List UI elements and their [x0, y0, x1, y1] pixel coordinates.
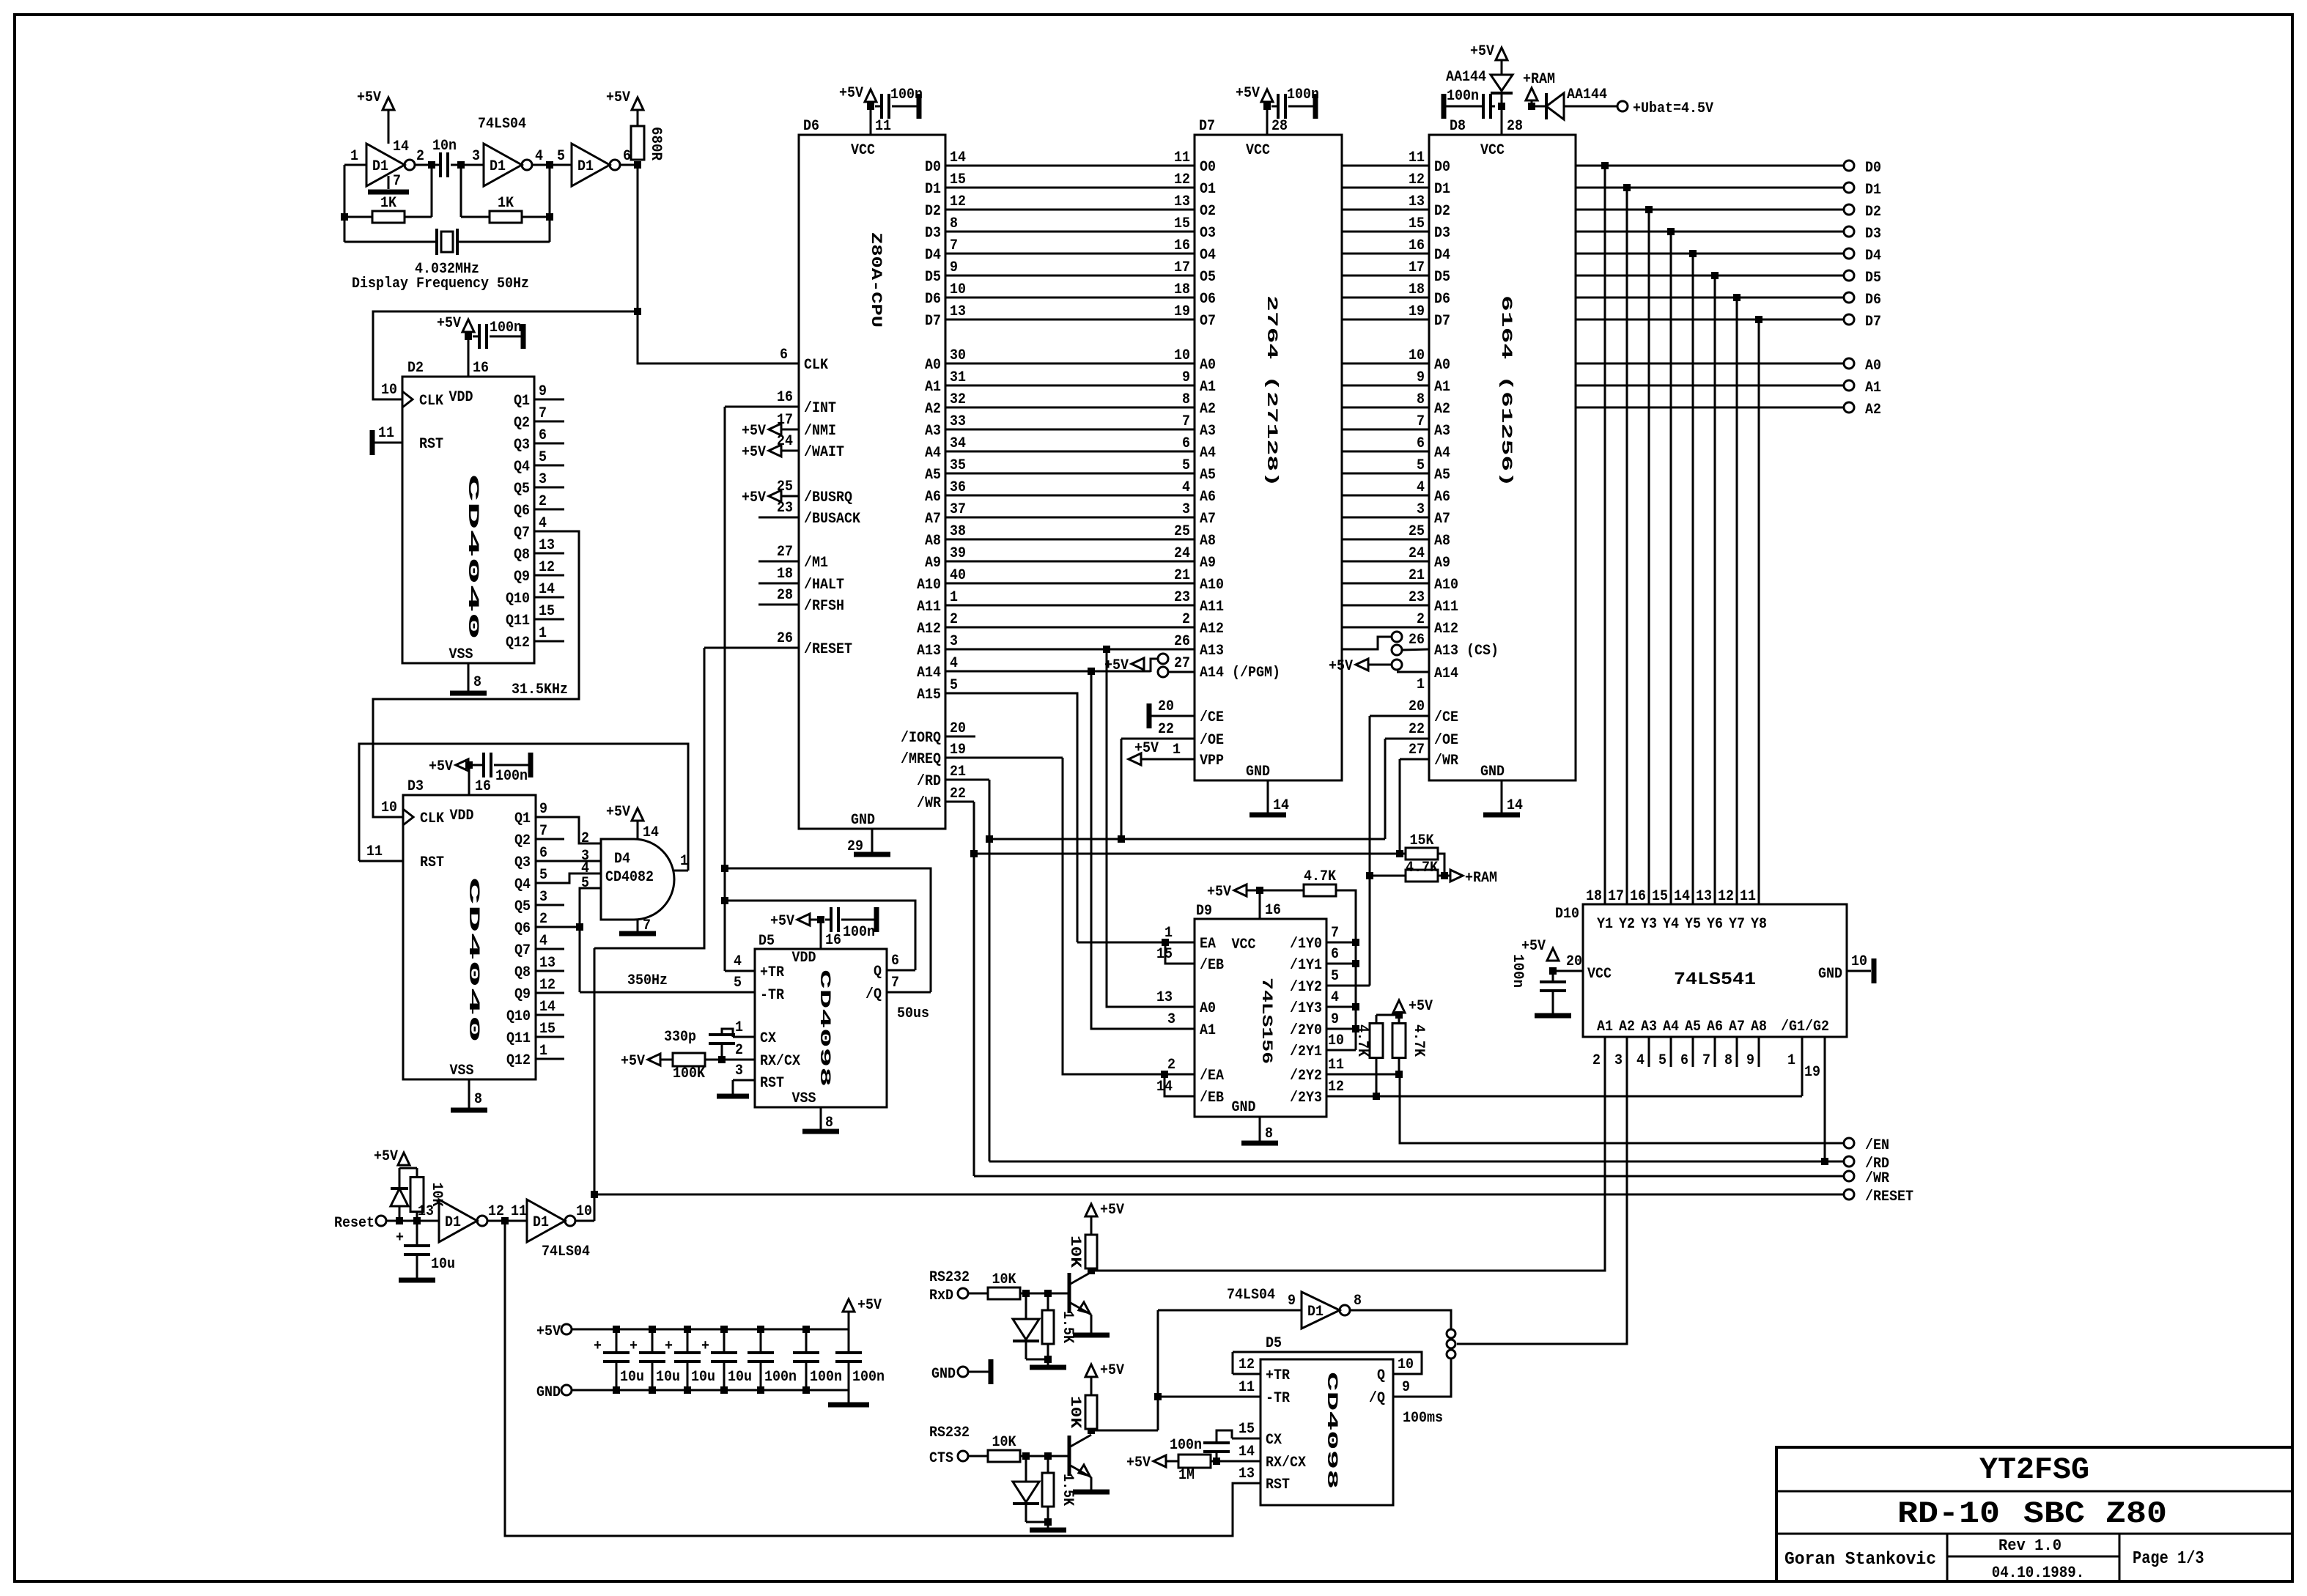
svg-text:/EA: /EA [1200, 1068, 1224, 1085]
IC D3 CD4040 counter box [403, 795, 536, 1079]
pin VPP of 2764 with +5V [1140, 758, 1195, 761]
svg-text:3: 3 [950, 633, 958, 650]
svg-text:D3: D3 [925, 225, 941, 242]
resistor 680R [631, 126, 644, 160]
svg-text:A1: A1 [1200, 1022, 1216, 1039]
svg-text:A11: A11 [1434, 599, 1458, 616]
svg-text:RST: RST [420, 854, 444, 871]
svg-text:D0: D0 [1865, 160, 1881, 177]
svg-text:8: 8 [950, 215, 958, 232]
svg-text:A9: A9 [925, 555, 941, 572]
cap bank rails [572, 1329, 849, 1331]
svg-text:10: 10 [1398, 1356, 1414, 1373]
svg-text:13: 13 [1696, 888, 1712, 905]
resistor 10K CTS collector pullup [1088, 1427, 1095, 1434]
diode AA144 from +Ubat to 6164 VCC rail [1532, 106, 1546, 108]
svg-text:/BUSRQ: /BUSRQ [804, 489, 852, 506]
svg-text:4: 4 [539, 933, 547, 950]
svg-text:D1: D1 [1307, 1304, 1324, 1320]
svg-text:SBC Z80: SBC Z80 [2023, 1496, 2167, 1532]
wire 6164 /OE down to /RD net [1384, 739, 1387, 839]
svg-text:17: 17 [1608, 888, 1624, 905]
svg-text:15: 15 [1174, 215, 1190, 232]
svg-text:3: 3 [735, 1063, 743, 1079]
svg-text:27: 27 [1174, 655, 1190, 672]
svg-text:AA144: AA144 [1446, 69, 1486, 86]
pin GND 8 of 74LS156 with ground [1259, 1117, 1261, 1143]
wire data bus D5 2764 to 6164 [1342, 275, 1429, 277]
IC D5 CD4098 monostable box [755, 949, 887, 1107]
svg-text:5: 5 [1182, 457, 1190, 474]
svg-text:16: 16 [475, 778, 491, 795]
svg-text:2: 2 [581, 830, 589, 847]
svg-text:100n: 100n [1170, 1437, 1202, 1454]
wire 74LS541 A2 to jumper near CD4098 [1457, 1037, 1627, 1344]
resistor 4.7K pullup top [1260, 890, 1304, 892]
svg-text:5: 5 [539, 449, 547, 466]
svg-text:11: 11 [1409, 149, 1425, 166]
svg-text:13: 13 [418, 1203, 434, 1220]
svg-text:9: 9 [950, 259, 958, 276]
svg-text:A11: A11 [1200, 599, 1224, 616]
ground pin 7 of 74LS04 gate 1 [388, 176, 390, 189]
capacitor 100n at 6164 VCC [1491, 106, 1495, 108]
svg-text:/OE: /OE [1200, 732, 1224, 749]
svg-text:14: 14 [1674, 888, 1690, 905]
svg-text:24: 24 [1174, 545, 1190, 562]
wire data bus D0 2764 to 6164 [1342, 165, 1429, 167]
svg-text:+5V: +5V [437, 315, 461, 332]
svg-text:Y4: Y4 [1663, 916, 1679, 933]
svg-text:/1Y1: /1Y1 [1290, 957, 1322, 974]
wire D3 Q1 to D4 pin2 [564, 817, 592, 843]
svg-text:+5V: +5V [357, 89, 381, 106]
svg-text:+5V: +5V [1470, 43, 1494, 60]
resistor 10K RxD series [968, 1293, 988, 1295]
svg-text:1: 1 [539, 625, 547, 642]
svg-text:9: 9 [539, 383, 547, 400]
svg-text:12: 12 [1718, 888, 1734, 905]
svg-text:A4: A4 [1434, 445, 1450, 462]
svg-text:11: 11 [1740, 888, 1756, 905]
svg-text:A5: A5 [1685, 1019, 1701, 1035]
wire 15K to +RAM node [1438, 854, 1444, 876]
IC D8 6164 RAM box [1429, 135, 1576, 780]
svg-text:/MREQ: /MREQ [901, 751, 941, 768]
pin 1 output of D4 [674, 870, 688, 872]
wire address bus A2 2764 to 6164 [1342, 407, 1429, 409]
svg-text:8: 8 [1724, 1052, 1732, 1069]
pin RST of D3 [359, 860, 403, 862]
svg-text:680R: 680R [647, 127, 664, 160]
title block vertical divider right [2119, 1534, 2121, 1581]
svg-text:17: 17 [1174, 259, 1190, 276]
capacitor 10u of reset circuit [416, 1221, 418, 1246]
IC D6 Z80A-CPU box [799, 135, 945, 829]
svg-text:5: 5 [557, 148, 565, 165]
svg-text:A8: A8 [1751, 1019, 1767, 1035]
svg-text:14: 14 [1273, 797, 1289, 814]
svg-text:12: 12 [539, 977, 555, 994]
pin 19 /G2 of 74LS541 wire to /RD [1824, 1037, 1826, 1161]
svg-text:14: 14 [539, 999, 555, 1016]
wire address bus A11 2764 to 6164 [1342, 605, 1429, 607]
svg-text:RX/CX: RX/CX [760, 1053, 800, 1070]
svg-text:33: 33 [950, 413, 966, 430]
terminal D4 [1844, 248, 1854, 259]
svg-text:A0: A0 [1200, 1000, 1216, 1017]
wire A13 2764 to 6164 CS jumper [1342, 637, 1392, 649]
svg-text:RxD: RxD [929, 1287, 953, 1304]
svg-text:D10: D10 [1555, 906, 1579, 923]
svg-text:+5V: +5V [1329, 658, 1353, 675]
svg-text:+RAM: +RAM [1523, 71, 1555, 88]
capacitor 10n [439, 152, 442, 177]
transistor Q CTS [1068, 1436, 1071, 1476]
inverter D1 osc2 [484, 144, 522, 186]
svg-text:24: 24 [777, 433, 793, 450]
svg-text:CLK: CLK [419, 393, 443, 410]
svg-text:16: 16 [1409, 237, 1425, 254]
svg-text:4: 4 [1331, 989, 1339, 1006]
svg-text:Goran Stankovic: Goran Stankovic [1784, 1550, 1936, 1570]
svg-text:/WR: /WR [917, 795, 941, 812]
svg-text:VPP: VPP [1200, 753, 1224, 769]
svg-text:9: 9 [1402, 1379, 1410, 1396]
svg-text:Z80A-CPU: Z80A-CPU [867, 232, 884, 328]
pin /EB 15 of 74LS156 strap [1165, 942, 1195, 964]
svg-text:+: + [594, 1338, 602, 1355]
svg-text:14: 14 [1507, 797, 1523, 814]
pin /INT of Z80 [725, 406, 799, 408]
pin 1 /G1 of 74LS541 wire to /2Y3 [1801, 1037, 1804, 1096]
svg-text:14: 14 [539, 581, 555, 598]
svg-text:D5: D5 [925, 269, 941, 286]
svg-text:15K: 15K [1410, 832, 1434, 849]
svg-text:1: 1 [950, 589, 958, 606]
svg-text:13: 13 [1409, 193, 1425, 210]
svg-text:A8: A8 [1434, 533, 1450, 550]
VDD pin 16 of D2 with +5V and 100n cap [468, 336, 470, 377]
svg-text:VCC: VCC [1587, 966, 1612, 983]
ground at cap bank right [848, 1390, 850, 1403]
svg-text:25: 25 [1409, 523, 1425, 540]
svg-text:10K: 10K [992, 1271, 1016, 1288]
svg-text:Q9: Q9 [514, 569, 530, 585]
svg-text:A9: A9 [1434, 555, 1450, 572]
svg-text:A0: A0 [1865, 358, 1881, 374]
svg-text:CLK: CLK [804, 357, 828, 374]
pin /BUSACK of Z80 [758, 517, 799, 519]
svg-text:5: 5 [539, 867, 547, 884]
svg-text:21: 21 [1174, 567, 1190, 584]
wire data bus D1 drop to 74LS541 [1626, 188, 1628, 904]
svg-text:Y2: Y2 [1619, 916, 1635, 933]
resistor 10K CTS series [968, 1455, 988, 1458]
+5V symbol at cap bank right [848, 1312, 850, 1329]
svg-text:10u: 10u [620, 1369, 644, 1386]
svg-text:Q12: Q12 [506, 1052, 531, 1069]
wire data bus D7 to terminal [1576, 319, 1844, 321]
IC D10 74LS541 buffer box [1583, 904, 1847, 1037]
svg-text:D6: D6 [1865, 292, 1881, 309]
resistor 4.7K pullup right vertical [1392, 1024, 1406, 1058]
inverter D1 reset 1 [439, 1200, 477, 1242]
svg-text:A3: A3 [1434, 423, 1450, 440]
svg-text:Q4: Q4 [514, 876, 531, 893]
svg-text:15: 15 [1239, 1421, 1255, 1438]
svg-text:10u: 10u [691, 1369, 715, 1386]
svg-text:A9: A9 [1200, 555, 1216, 572]
svg-text:14: 14 [643, 824, 659, 841]
svg-text:6: 6 [780, 347, 788, 363]
svg-text:38: 38 [950, 523, 966, 540]
svg-text:A1: A1 [925, 379, 941, 396]
svg-text:Q4: Q4 [514, 459, 530, 476]
clock input mark D2 [402, 391, 413, 407]
wire address A2 to terminal [1576, 407, 1844, 409]
wire to inverter input pin 9 [1158, 1309, 1302, 1312]
wire D3 Q4 to D4 pin4 [564, 873, 592, 883]
svg-text:A14 (/PGM): A14 (/PGM) [1200, 665, 1280, 681]
svg-text:+5V: +5V [1207, 884, 1231, 901]
wire inverter output pin 8 to jumper [1350, 1310, 1451, 1329]
svg-text:4.7K: 4.7K [1354, 1024, 1370, 1057]
svg-text:100n: 100n [490, 319, 522, 336]
svg-text:/RFSH: /RFSH [804, 598, 844, 615]
svg-text:Q7: Q7 [514, 525, 530, 542]
svg-text:/2Y2: /2Y2 [1290, 1068, 1322, 1085]
svg-text:A14: A14 [917, 665, 941, 681]
svg-text:Q10: Q10 [506, 1008, 531, 1025]
svg-text:Q3: Q3 [514, 854, 531, 871]
svg-text:A7: A7 [1434, 511, 1450, 528]
wire D3 Q6 down to 350Hz net [579, 927, 581, 992]
svg-text:22: 22 [1409, 721, 1425, 738]
pin 1 wire into osc inverter 1 [344, 164, 366, 166]
IC D9 74LS156 decoder box [1195, 919, 1326, 1117]
svg-text:10K: 10K [1066, 1396, 1083, 1428]
svg-text:8: 8 [1354, 1293, 1362, 1309]
svg-text:/CE: /CE [1200, 709, 1224, 726]
svg-text:/CE: /CE [1434, 709, 1458, 726]
svg-text:A2: A2 [1434, 401, 1450, 418]
svg-text:/WR: /WR [1434, 753, 1458, 769]
svg-text:/EB: /EB [1200, 1090, 1224, 1107]
pin /WAIT of Z80 with +5V [781, 450, 799, 452]
svg-text:10: 10 [1409, 347, 1425, 364]
svg-text:+5V: +5V [429, 758, 453, 775]
svg-text:7: 7 [1417, 413, 1425, 430]
svg-text:A0: A0 [925, 357, 941, 374]
svg-text:A3: A3 [1641, 1019, 1657, 1035]
svg-text:10u: 10u [656, 1369, 680, 1386]
svg-text:VCC: VCC [1232, 936, 1256, 953]
svg-text:6: 6 [623, 148, 631, 165]
svg-text:25: 25 [1174, 523, 1190, 540]
svg-text:18: 18 [1174, 281, 1190, 298]
svg-text:A1: A1 [1434, 379, 1450, 396]
svg-text:/RESET: /RESET [1865, 1189, 1913, 1205]
svg-text:D2: D2 [1434, 203, 1450, 220]
wire 6164 /CE down to 74LS156 /1Y2 [1369, 716, 1371, 986]
svg-text:7: 7 [1331, 925, 1339, 942]
svg-text:A13: A13 [1200, 643, 1224, 660]
svg-text:74LS156: 74LS156 [1258, 978, 1274, 1064]
svg-text:Y8: Y8 [1751, 916, 1767, 933]
wire data bus D3 to terminal [1576, 231, 1844, 233]
svg-text:7: 7 [950, 237, 958, 254]
jumper circles 3-pin [1447, 1329, 1455, 1338]
svg-text:D2: D2 [1865, 204, 1881, 221]
svg-text:23: 23 [777, 500, 793, 517]
wire /WR link row [974, 853, 1406, 855]
title block vertical divider left [1946, 1534, 1949, 1581]
svg-text:11: 11 [1239, 1379, 1255, 1396]
emitter ground CTS transistor [1090, 1477, 1093, 1490]
svg-text:A2: A2 [925, 401, 941, 418]
svg-text:VCC: VCC [851, 142, 875, 159]
svg-text:D1: D1 [577, 158, 594, 175]
svg-text:6: 6 [1182, 435, 1190, 452]
svg-text:+5V: +5V [1521, 938, 1546, 955]
svg-text:1.5K: 1.5K [1059, 1311, 1076, 1343]
svg-text:/2Y1: /2Y1 [1290, 1043, 1322, 1060]
svg-text:CTS: CTS [929, 1450, 953, 1467]
terminal /RESET [1844, 1189, 1854, 1200]
GND pin 14 of 6164 with ground [1501, 780, 1503, 815]
svg-text:74LS04: 74LS04 [478, 116, 526, 133]
svg-text:A10: A10 [917, 577, 941, 594]
svg-text:3: 3 [472, 148, 480, 165]
svg-text:O6: O6 [1200, 291, 1216, 308]
svg-text:10n: 10n [432, 138, 457, 155]
svg-text:GND: GND [536, 1384, 561, 1401]
resistor 10K of reset circuit [416, 1168, 418, 1177]
svg-text:16: 16 [473, 360, 489, 377]
svg-text:5: 5 [581, 875, 589, 892]
svg-text:1: 1 [735, 1019, 743, 1036]
svg-text:13: 13 [539, 955, 555, 972]
svg-text:Q2: Q2 [514, 832, 531, 849]
diode clamp RxD [1025, 1293, 1027, 1319]
svg-text:D5: D5 [1865, 270, 1881, 287]
svg-text:15: 15 [1409, 215, 1425, 232]
svg-text:CLK: CLK [420, 810, 444, 827]
svg-text:8: 8 [473, 674, 481, 691]
svg-text:D7: D7 [1434, 313, 1450, 330]
terminal A0 [1844, 358, 1854, 369]
pin /NMI of Z80 with +5V [781, 429, 799, 431]
pin VCC 16 of 74LS156 [1259, 890, 1261, 919]
svg-text:A4: A4 [1200, 445, 1216, 462]
svg-text:32: 32 [950, 391, 966, 408]
svg-text:12: 12 [539, 559, 555, 576]
pin /WR of 6164 [1400, 758, 1429, 761]
svg-text:A6: A6 [1200, 489, 1216, 506]
svg-text:+5V: +5V [1100, 1202, 1124, 1219]
capacitor 10u bank 1 [613, 1326, 620, 1333]
terminal D1 [1844, 182, 1854, 193]
svg-text:A3: A3 [925, 423, 941, 440]
svg-text:19: 19 [1174, 303, 1190, 320]
terminal D0 [1844, 160, 1854, 171]
GND pin 14 of 2764 with ground [1267, 780, 1269, 815]
terminal /WR [1844, 1171, 1854, 1181]
svg-text:+5V: +5V [621, 1053, 645, 1070]
svg-text:7: 7 [1182, 413, 1190, 430]
svg-text:7: 7 [539, 405, 547, 422]
wire reset inverter output to /RESET net [575, 1220, 594, 1222]
terminal D6 [1844, 292, 1854, 303]
svg-text:/EN: /EN [1865, 1137, 1889, 1154]
svg-text:2: 2 [1167, 1057, 1175, 1074]
svg-text:+5V: +5V [857, 1297, 882, 1314]
svg-text:100n: 100n [1509, 954, 1526, 988]
wire data bus D2 drop to 74LS541 [1648, 210, 1650, 904]
wire feedback 2 left riser [460, 165, 462, 217]
svg-text:16: 16 [1174, 237, 1190, 254]
wire gate2 out to node 5 [532, 164, 572, 166]
svg-text:5: 5 [734, 975, 742, 991]
svg-text:Y5: Y5 [1685, 916, 1701, 933]
pin /CE of 6164 [1370, 715, 1429, 717]
pin A0 of 74LS156 from A13 [1107, 649, 1195, 1007]
svg-text:Q11: Q11 [506, 1030, 531, 1047]
svg-text:36: 36 [950, 479, 966, 496]
+5V above RxD collector resistor [1085, 1204, 1097, 1216]
pin /RESET of Z80 [704, 647, 799, 649]
svg-text:20: 20 [1566, 953, 1582, 970]
+5V above CTS collector resistor [1085, 1364, 1097, 1377]
wire 31.5KHz loop from D2 Q7 to D3 CLK [373, 531, 579, 817]
node osc A junction [428, 161, 435, 169]
svg-text:39: 39 [950, 545, 966, 562]
AND gate D4 CD4082 [601, 839, 674, 920]
svg-text:17: 17 [777, 412, 793, 429]
svg-text:CD4098: CD4098 [816, 969, 833, 1087]
svg-text:11: 11 [1174, 149, 1190, 166]
wire cap to gate2 input [451, 164, 484, 166]
svg-text:4: 4 [539, 515, 547, 532]
svg-text:3: 3 [1417, 501, 1425, 518]
svg-text:A15: A15 [917, 687, 941, 703]
svg-text:O2: O2 [1200, 203, 1216, 220]
svg-text:12: 12 [1174, 171, 1190, 188]
svg-text:/WR: /WR [1865, 1170, 1889, 1187]
svg-text:12: 12 [950, 193, 966, 210]
svg-text:Q6: Q6 [514, 503, 530, 520]
svg-text:D1: D1 [372, 158, 388, 175]
svg-text:04.10.1989.: 04.10.1989. [1992, 1564, 2085, 1582]
terminal /EN [1844, 1138, 1854, 1148]
svg-text:27: 27 [1409, 742, 1425, 758]
wire /RESET row to terminal [594, 1194, 1844, 1196]
wire address A0 to terminal [1576, 363, 1844, 365]
svg-text:100n: 100n [764, 1369, 797, 1386]
svg-text:74LS04: 74LS04 [1227, 1287, 1275, 1304]
svg-text:A13: A13 [917, 643, 941, 660]
svg-text:/1Y3: /1Y3 [1290, 1000, 1322, 1017]
wire data bus D3 2764 to 6164 [1342, 231, 1429, 233]
svg-text:Display Frequency 50Hz: Display Frequency 50Hz [352, 276, 529, 292]
svg-text:+5V: +5V [742, 444, 766, 461]
svg-text:20: 20 [1158, 698, 1174, 715]
svg-text:D1: D1 [445, 1214, 461, 1231]
wire address bus A0 2764 to 6164 [1342, 363, 1429, 365]
svg-text:4: 4 [1636, 1052, 1645, 1069]
svg-text:/1Y2: /1Y2 [1290, 979, 1322, 996]
